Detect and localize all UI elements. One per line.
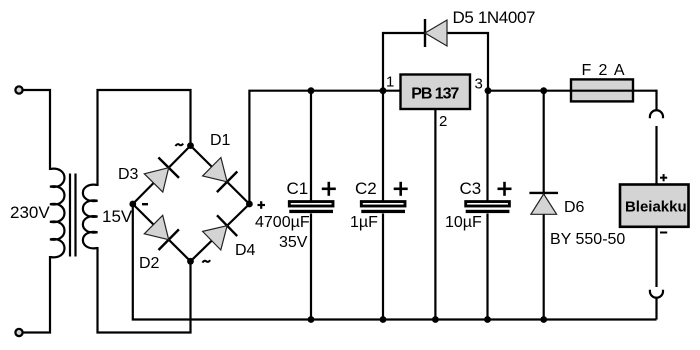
- label - (battery): [660, 232, 667, 234]
- wire V+ bus pin3 to fuse: [488, 90, 571, 92]
- wire connector to battery plus: [655, 126, 657, 185]
- wire bridge edge left-top: [133, 146, 191, 204]
- svg-text:PB 137: PB 137: [411, 86, 459, 103]
- wire bridge plus up to V+ bus: [249, 91, 400, 204]
- capacitor C3: [466, 91, 510, 320]
- wire connector to ground bus: [655, 298, 657, 320]
- svg-text:35V: 35V: [279, 234, 308, 251]
- terminal J1 bottom (mains input): [15, 329, 22, 336]
- svg-text:10µF: 10µF: [445, 214, 482, 231]
- svg-text:D5 1N4007: D5 1N4007: [453, 8, 536, 27]
- svg-text:C3: C3: [460, 179, 482, 198]
- transformer T1 primary winding: [50, 169, 64, 258]
- wire primary top: [24, 90, 51, 170]
- node bridge AC top: [187, 142, 194, 149]
- svg-text:D6: D6: [564, 199, 585, 216]
- label + (C3 polarity): [498, 182, 512, 196]
- battery BT1 Bleiakku: [620, 185, 689, 227]
- wire pin 2 to ground bus: [434, 109, 436, 320]
- svg-text:F 2 A: F 2 A: [582, 62, 625, 79]
- svg-text:D4: D4: [235, 242, 256, 259]
- diode D5: [425, 19, 447, 47]
- svg-text:D1: D1: [210, 132, 231, 149]
- wire bridge edge top-right: [191, 146, 250, 204]
- terminal J1 top (mains input): [15, 86, 22, 93]
- node bridge AC bottom: [187, 258, 194, 265]
- wire bridge minus down to ground bus: [133, 204, 657, 320]
- diode D1 (bridge top-right arm): [203, 158, 238, 193]
- wire fuse to connector: [655, 91, 657, 110]
- wire secondary top to bridge AC top: [98, 90, 191, 186]
- node C1 top: [308, 87, 315, 94]
- svg-text:1µF: 1µF: [350, 214, 378, 231]
- label + (bridge plus): [258, 201, 266, 209]
- transformer T1 secondary winding: [83, 185, 98, 249]
- node C2/pin1 top: [380, 87, 387, 94]
- node D6 top: [540, 87, 547, 94]
- diode D6: [529, 91, 558, 320]
- diode D2 (bridge left-bottom arm): [144, 215, 179, 250]
- label + (C1 polarity): [322, 182, 336, 196]
- wire primary bottom: [24, 256, 51, 333]
- node pin2 bottom: [432, 316, 439, 323]
- node D6 bottom: [540, 316, 547, 323]
- svg-text:1: 1: [386, 74, 394, 91]
- capacitor C1: [289, 91, 333, 320]
- op-amp U1 regulator PB 137: [401, 75, 471, 110]
- node bridge minus: [129, 201, 136, 208]
- node C1 bottom: [308, 316, 315, 323]
- svg-text:230V: 230V: [10, 203, 50, 222]
- svg-text:C1: C1: [287, 179, 309, 198]
- node C2 bottom: [380, 316, 387, 323]
- svg-text:BY 550-50: BY 550-50: [550, 231, 625, 248]
- label + (C2 polarity): [394, 182, 408, 196]
- svg-text:Bleiakku: Bleiakku: [625, 199, 687, 216]
- wire secondary bottom to bridge AC bottom: [98, 247, 191, 333]
- label ~ bottom: [202, 260, 210, 262]
- label + (battery): [660, 174, 667, 181]
- svg-text:D3: D3: [118, 166, 139, 183]
- diode D4 (bridge bottom-right arm): [203, 215, 238, 250]
- wire bridge edge bottom-right: [191, 204, 250, 261]
- node bridge plus: [246, 201, 253, 208]
- node C3/pin3: [485, 87, 492, 94]
- diode D3 (bridge left-top arm): [144, 158, 179, 193]
- capacitor C2: [361, 91, 405, 320]
- svg-text:4700µF: 4700µF: [255, 214, 310, 231]
- node C3 bottom: [484, 316, 491, 323]
- wire D5 bypass loop: [383, 33, 488, 91]
- svg-text:D2: D2: [139, 255, 160, 272]
- svg-text:2: 2: [439, 113, 447, 130]
- svg-text:15V: 15V: [102, 207, 133, 226]
- fuse F1: [571, 79, 657, 101]
- label ~ top: [175, 144, 183, 146]
- svg-text:3: 3: [475, 76, 483, 93]
- wire bridge edge left-bottom: [133, 204, 191, 261]
- svg-text:C2: C2: [355, 179, 377, 198]
- transformer T1 core: [69, 174, 71, 257]
- connector plug bottom: [650, 290, 663, 298]
- connector plug top: [650, 110, 663, 118]
- wire battery minus to connector: [655, 227, 657, 287]
- label - (bridge minus): [142, 203, 148, 205]
